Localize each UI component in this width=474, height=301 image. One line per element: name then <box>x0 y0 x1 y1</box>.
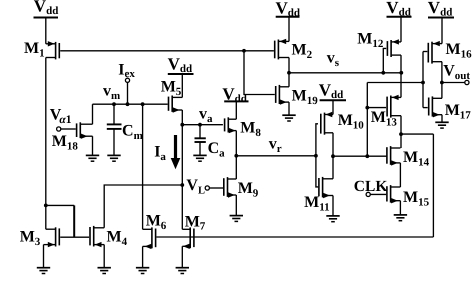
ground symbol below M11 <box>326 216 339 222</box>
wire node vm rail <box>93 103 168 105</box>
svg-text:CLK: CLK <box>354 178 388 195</box>
wire M12 gate riser <box>383 48 386 72</box>
junction vr rail right end <box>314 154 318 158</box>
transistor M14 (NMOS) <box>387 146 401 166</box>
wire M1 gate to M2 gate <box>60 50 274 52</box>
power Vdd supply above M1 <box>34 0 59 18</box>
wire reset loop vertical right <box>432 134 434 237</box>
junction node vr <box>234 154 238 158</box>
terminal Vout output circle <box>465 80 469 84</box>
ground symbol below M17 <box>435 122 448 128</box>
wire comparator branch vertical <box>366 83 368 157</box>
terminal VL circle <box>205 186 209 190</box>
power Vdd supply above M12 <box>386 0 411 19</box>
power Vdd supply above M16 <box>428 0 454 19</box>
wire node vr rail <box>236 155 316 157</box>
transistor M8 (NMOS) <box>225 117 237 133</box>
junction node vs at M2 drain <box>287 71 291 75</box>
wire Vdd to M2 source <box>288 17 290 42</box>
ground symbol below M3 <box>37 268 50 274</box>
transistor M5 (NMOS) <box>169 96 183 113</box>
wire Cm stem bottom <box>113 129 115 156</box>
wire M16-M17 gate riser <box>422 52 424 108</box>
transistor M18 (NMOS) <box>77 122 93 139</box>
wire M2 drain to M19 drain through vs <box>288 58 290 87</box>
terminal Iex current input circle <box>125 78 129 82</box>
wire stub to M16 gate <box>423 51 427 53</box>
transistor M2 (PMOS) <box>275 39 289 60</box>
ground symbol below M9 <box>230 216 243 222</box>
wire Vdd to M16 source <box>441 18 443 44</box>
junction node Vout <box>440 81 444 85</box>
transistor M17 (NMOS) <box>429 96 442 117</box>
junction vs line end on M12-M13 column <box>399 71 403 75</box>
transistor M3 (NMOS) <box>44 227 60 247</box>
wire VL terminal to M9 gate <box>209 187 223 189</box>
wire M6 source to ground <box>142 246 144 267</box>
ground symbol below M15 <box>394 215 407 221</box>
wire node vs line <box>289 72 401 74</box>
wire M11 drain up to node u <box>332 156 334 179</box>
transistor M16 (PMOS) <box>428 41 442 64</box>
ground symbol below M19 <box>282 115 295 121</box>
wire mirror loop top segment <box>46 204 74 206</box>
wire M4 drain riser to vL node line <box>104 185 182 228</box>
transistor M12 (PMOS) <box>387 39 401 57</box>
wire M8 drain through vr to M9 drain <box>235 131 237 179</box>
svg-text:1: 1 <box>66 114 72 126</box>
junction inverter gate riser top <box>421 81 425 85</box>
wire node va rail to M8 gate <box>182 124 223 126</box>
wire Cm stem top <box>113 104 115 124</box>
transistor M6 (NMOS) <box>143 227 156 249</box>
wire node u line to M14 gate <box>333 155 386 157</box>
transistor M13 (PMOS) <box>387 95 401 118</box>
wire reset rail to M6 and M7 gates <box>157 236 434 238</box>
wire vm rail to M18 drain <box>92 104 94 124</box>
transistor M10 (PMOS) <box>321 112 333 135</box>
wire M3 gate to M4 gate rail <box>60 236 89 238</box>
wire M15 source to ground <box>399 201 401 215</box>
wire Ca stem top <box>199 125 201 139</box>
wire vm rail down to M6 drain <box>142 104 144 229</box>
junction vs tap to M12 gate riser <box>381 71 385 75</box>
wire M9 source to ground <box>235 195 237 216</box>
capacitor Cm <box>107 124 122 128</box>
wire node Vout line <box>442 82 465 84</box>
wire M19 gate riser <box>244 51 275 95</box>
power Vdd supply above M10 <box>319 80 346 101</box>
ground symbol below M4 <box>98 268 111 274</box>
wire mirror loop vertical segment <box>73 205 75 237</box>
power Vdd supply above M8 <box>222 84 248 105</box>
wire Valpha1 terminal to M18 gate <box>61 128 76 130</box>
wire branch top to inverter gates <box>367 82 423 84</box>
ground symbol below M7 <box>176 268 189 274</box>
transistor M19 (NMOS) <box>276 85 289 105</box>
junction node u to comparator branch <box>365 154 369 158</box>
annotation current Ia arrow <box>171 135 181 169</box>
label Valpha1 <box>50 107 72 126</box>
wire M12 drain to M13 source column <box>400 55 402 97</box>
junction node va <box>180 123 184 127</box>
wire M4 source to ground <box>103 245 105 268</box>
wire reset loop horizontal top <box>401 133 433 135</box>
junction vL line meets va column <box>180 183 184 187</box>
wire M14 source to M15 drain <box>399 163 401 187</box>
junction node u at M10-M11 drains <box>331 154 335 158</box>
ground symbol below Cm <box>107 155 120 161</box>
wire M10 drain down to node u <box>332 133 334 156</box>
junction Ca tap on va rail <box>198 123 202 127</box>
wire M11 source to ground <box>332 196 334 216</box>
junction M13 gate tap <box>365 106 369 110</box>
capacitor Ca <box>195 138 206 142</box>
wire Vdd to M5 drain <box>181 74 183 97</box>
wire vr down to M11 gate <box>316 156 318 187</box>
wire Vdd to M8 drain <box>235 101 237 119</box>
wire vr up to M10 gate <box>316 124 318 156</box>
wire M16 drain to M17 drain through Vout <box>441 62 443 99</box>
junction gate line to M19 gate riser <box>242 49 246 53</box>
power Vdd supply above M5 <box>168 55 194 76</box>
wire M3 source to ground <box>43 245 45 268</box>
wire M17 source to ground <box>441 115 443 123</box>
transistor M7 (NMOS) <box>182 227 194 249</box>
ground symbol below M6 <box>136 268 149 274</box>
transistor M9 (NMOS) <box>224 177 237 198</box>
wire M1 drain down to M3 drain <box>45 58 47 230</box>
ground symbol below M18 <box>86 155 99 161</box>
transistor M11 (NMOS) <box>319 177 333 198</box>
wire M7 source to ground <box>181 246 183 267</box>
wire CLK terminal to M15 gate <box>370 193 386 195</box>
junction Cm tap on vm rail <box>112 102 116 106</box>
junction reset rail branch on M13 drain column <box>399 132 403 136</box>
wire stub to M17 gate <box>423 107 428 109</box>
ground symbol below Ca <box>193 155 206 161</box>
junction mirror loop tap on M1-M3 column <box>44 204 48 208</box>
junction Iex tap on vm rail <box>126 102 130 106</box>
wire M18 source to ground <box>92 136 94 155</box>
wire M13 drain to M14 drain column <box>400 116 402 148</box>
wire Ca stem bottom <box>199 142 201 155</box>
junction M6 drain drop on vm rail <box>141 102 145 106</box>
wire Iex terminal to vm rail <box>127 82 129 104</box>
wire M13 gate lead <box>367 107 386 109</box>
transistor M15 (NMOS) <box>387 185 401 203</box>
wire Vdd to M1 source <box>45 18 47 44</box>
terminal CLK circle <box>366 192 370 196</box>
wire Vdd to M10 source <box>332 100 334 114</box>
wire Vdd to M12 source <box>400 17 402 42</box>
power Vdd supply above M2 <box>276 0 301 19</box>
transistor M4 (NMOS) <box>90 226 104 247</box>
wire M19 source to ground <box>288 102 290 115</box>
terminal Valpha1 input circle <box>57 127 61 131</box>
wire M5 source column through va and vL to M7 drain <box>181 110 183 229</box>
transistor M1 (PMOS) <box>46 41 60 59</box>
